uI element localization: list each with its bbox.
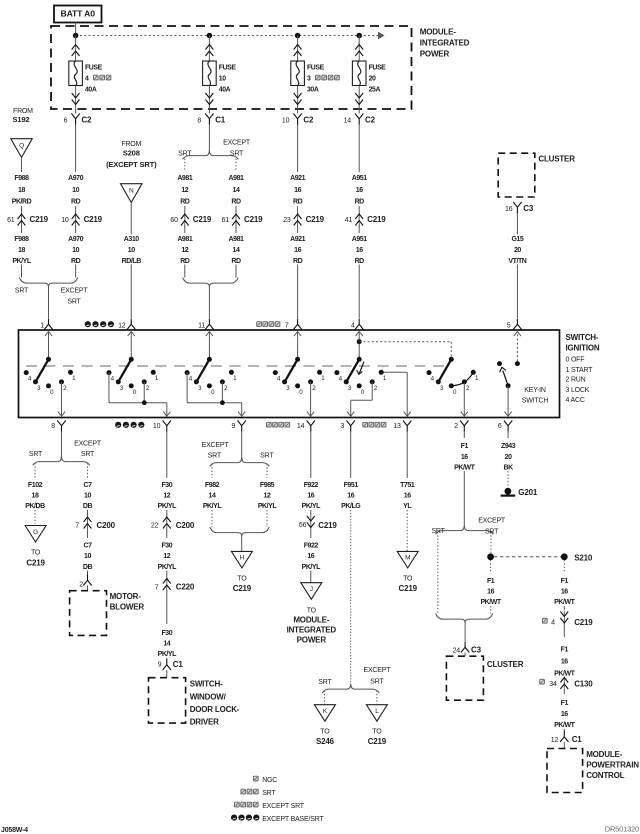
ignition switch wafer at x=451.3: feed wire and wiper	[438, 342, 454, 382]
connector pin 2 at motor blower	[79, 575, 91, 591]
fuse 4 (40A)	[69, 36, 111, 114]
svg-text:16: 16	[487, 589, 494, 596]
svg-text:BATT A0: BATT A0	[61, 9, 96, 19]
svg-text:EXCEPT: EXCEPT	[223, 139, 251, 146]
svg-text:PK/YL: PK/YL	[158, 503, 178, 510]
svg-text:FUSE: FUSE	[307, 65, 325, 72]
svg-text:A970: A970	[68, 175, 83, 182]
connector C2 pin 14	[344, 114, 376, 125]
off-page connector N (from S208)	[121, 184, 143, 318]
svg-text:C130: C130	[574, 680, 593, 689]
svg-text:4: 4	[85, 76, 89, 83]
svg-text:F951: F951	[344, 482, 359, 489]
svg-text:S246: S246	[316, 737, 335, 746]
svg-text:16: 16	[356, 247, 363, 254]
switch bottom pin 8 connector	[51, 421, 65, 432]
svg-text:2: 2	[454, 423, 458, 430]
wire A921 16 RD (lower)	[288, 234, 308, 318]
svg-text:25A: 25A	[369, 87, 381, 94]
bridge arc contacts 0-2-1 on wafer 6	[451, 372, 473, 386]
legend: EXCEPT SRT	[235, 802, 305, 810]
svg-text:10: 10	[72, 247, 79, 254]
svg-text:C1: C1	[173, 660, 184, 669]
wire F988 18 PK/YL	[10, 234, 34, 277]
svg-text:A921: A921	[290, 236, 305, 243]
svg-text:24: 24	[453, 648, 461, 655]
wire F1 16 PK/WT from pin 2	[452, 432, 476, 526]
svg-text:RD/LB: RD/LB	[122, 258, 142, 265]
svg-text:9: 9	[158, 662, 162, 669]
svg-text:20: 20	[514, 247, 521, 254]
svg-text:14: 14	[163, 640, 170, 647]
svg-text:C200: C200	[97, 521, 116, 530]
splice S210	[487, 532, 593, 562]
connector C3 pin 24 at cluster	[453, 642, 482, 657]
svg-text:YL: YL	[403, 503, 412, 510]
svg-text:C219: C219	[193, 215, 212, 224]
svg-text:F1: F1	[561, 578, 569, 585]
svg-text:FROM: FROM	[121, 141, 141, 148]
svg-text:PK/YL: PK/YL	[258, 503, 278, 510]
svg-text:3: 3	[307, 76, 311, 83]
off-page connector Q (from S192)	[11, 139, 32, 172]
wire wafer2 contacts 4+2 to pin 10	[109, 373, 170, 417]
wire A981 12 RD (srt, upper)	[175, 173, 195, 205]
svg-text:NGC: NGC	[262, 777, 277, 784]
svg-text:C219: C219	[233, 584, 252, 593]
svg-text:12: 12	[264, 493, 271, 500]
svg-text:PK/YL: PK/YL	[12, 258, 32, 265]
node FROM S192 label	[13, 108, 34, 124]
svg-text:SRT: SRT	[431, 528, 445, 535]
merge brace pin 9 branches	[210, 527, 269, 551]
svg-text:23: 23	[283, 217, 291, 224]
svg-text:61: 61	[222, 217, 230, 224]
legend: NGC	[253, 776, 277, 784]
svg-text:SRT: SRT	[370, 678, 384, 685]
legend: SRT	[241, 789, 276, 797]
svg-text:PK/LG: PK/LG	[341, 503, 361, 510]
svg-text:0 OFF: 0 OFF	[566, 357, 585, 364]
svg-text:C2: C2	[365, 116, 376, 125]
svg-text:18: 18	[18, 187, 25, 194]
svg-text:DRIVER: DRIVER	[190, 718, 219, 727]
svg-text:14: 14	[209, 493, 216, 500]
svg-text:G201: G201	[518, 488, 538, 497]
svg-text:POWER: POWER	[420, 50, 450, 59]
svg-text:RD: RD	[180, 258, 190, 265]
wire F982 14 PK/YL	[200, 480, 224, 527]
svg-text:6: 6	[64, 117, 68, 124]
svg-text:18: 18	[32, 493, 39, 500]
svg-text:16: 16	[561, 711, 568, 718]
ignition switch wafer at x=48.5: feed wire and wiper	[36, 330, 53, 382]
legend: EXCEPT BASE/SRT	[231, 815, 324, 824]
svg-text:16: 16	[561, 589, 568, 596]
merge brace to pin 11	[183, 278, 239, 319]
svg-text:N: N	[129, 187, 134, 194]
svg-text:C219: C219	[306, 215, 325, 224]
svg-text:16: 16	[404, 493, 411, 500]
svg-text:A981: A981	[229, 236, 244, 243]
ignition switch wafer at x=297.6: feed wire and wiper	[285, 330, 302, 382]
svg-text:20: 20	[505, 454, 512, 461]
svg-text:TO: TO	[403, 576, 413, 583]
svg-text:H: H	[240, 555, 245, 562]
switch-ignition enclosure	[19, 330, 560, 418]
svg-text:16: 16	[307, 553, 314, 560]
off-page connector K to S246	[314, 705, 335, 746]
svg-text:IGNITION: IGNITION	[566, 344, 600, 353]
svg-text:PK/YL: PK/YL	[203, 503, 223, 510]
wire F30 12 PK/YL (upper)	[155, 432, 179, 511]
svg-text:30A: 30A	[307, 87, 319, 94]
svg-text:PK/YL: PK/YL	[302, 503, 322, 510]
off-page connector J to module-integrated power	[287, 583, 337, 645]
svg-text:RD: RD	[71, 258, 81, 265]
fuse 3 (30A)	[291, 36, 340, 114]
svg-text:SRT: SRT	[178, 150, 192, 157]
svg-text:TO: TO	[372, 728, 382, 735]
off-page connector L to C219	[366, 705, 387, 746]
svg-text:7: 7	[75, 523, 79, 530]
wire wafer4 contact 2 to pin 14	[307, 382, 314, 417]
wire BATT A0 to bus	[75, 23, 77, 36]
svg-text:EXCEPT BASE/SRT: EXCEPT BASE/SRT	[262, 816, 324, 823]
fuse 10 (40A)	[203, 36, 237, 114]
svg-text:C219: C219	[368, 737, 387, 746]
svg-text:F30: F30	[161, 482, 172, 489]
switch bottom pin 2 connector	[454, 421, 468, 432]
wire A310 10 RD/LB	[119, 234, 143, 265]
split brace pin 3: SRT / EXCEPT SRT	[318, 667, 391, 704]
svg-text:Q: Q	[19, 142, 24, 149]
svg-text:40A: 40A	[219, 87, 231, 94]
svg-text:RD: RD	[293, 198, 303, 205]
switch pin 12 connector (except base/srt)	[85, 319, 136, 330]
svg-text:PK/YL: PK/YL	[158, 564, 178, 571]
svg-text:10: 10	[84, 493, 91, 500]
connector C200 pin 22	[151, 510, 195, 538]
connector C219 pin 4 (ngc)	[543, 611, 594, 638]
svg-text:C219: C219	[574, 618, 593, 627]
wafer contacts 4,3,0,2,1 at x=451.3	[427, 370, 479, 396]
split brace SRT / EXCEPT SRT below C1	[178, 139, 251, 172]
svg-text:EXCEPT SRT: EXCEPT SRT	[262, 803, 305, 810]
wire F922 16 PK/YL (lower)	[299, 541, 323, 583]
sheet number DR501320	[605, 825, 639, 834]
wire C7 10 DB (except srt, upper)	[82, 480, 93, 510]
wire Z943 20 BK from pin 6	[498, 432, 518, 487]
label MODULE-INTEGRATED POWER (top right)	[420, 27, 470, 58]
svg-text:C3: C3	[471, 646, 482, 655]
svg-text:SWITCH-: SWITCH-	[190, 680, 223, 689]
svg-text:RD: RD	[71, 198, 81, 205]
svg-text:16: 16	[307, 493, 314, 500]
svg-text:EXCEPT: EXCEPT	[61, 287, 89, 294]
connector C200 pin 7	[75, 510, 115, 538]
svg-text:A921: A921	[290, 175, 305, 182]
wire wafer6 contact 2 to pin 2	[461, 383, 468, 417]
wafer contacts 4,3,0,2,1 at x=359.2	[334, 370, 386, 396]
switch bottom pin 14 connector	[267, 421, 316, 432]
svg-text:SRT: SRT	[318, 679, 332, 686]
svg-text:CONTROL: CONTROL	[586, 771, 624, 780]
connector C219 pin 41	[345, 206, 386, 233]
wire F951 16 PK/LG	[339, 432, 363, 684]
power feed label BATT A0	[54, 6, 102, 23]
cluster dashed box (top right)	[498, 153, 575, 197]
ignition switch wafer at x=131.25: feed wire and wiper	[118, 330, 135, 382]
svg-text:SWITCH-: SWITCH-	[566, 333, 599, 342]
svg-text:(EXCEPT SRT): (EXCEPT SRT)	[106, 160, 157, 169]
connector C1 pin 12 at PCM	[551, 731, 582, 748]
svg-text:MODULE-: MODULE-	[420, 27, 456, 36]
svg-text:1: 1	[40, 322, 44, 329]
connector C219 pin 61 (right)	[222, 206, 263, 233]
svg-text:F102: F102	[28, 482, 43, 489]
svg-text:KEY-IN: KEY-IN	[524, 387, 546, 394]
connector C2 pin 6	[64, 114, 92, 125]
svg-text:PK/WT: PK/WT	[554, 722, 575, 729]
svg-text:FUSE: FUSE	[85, 65, 103, 72]
wire A981 14 RD (except srt, upper)	[226, 173, 246, 205]
wire wafer3 contacts 4+2 to pin 9	[187, 373, 245, 417]
svg-text:F922: F922	[304, 482, 319, 489]
switch bottom pin 9 connector	[231, 421, 245, 432]
connector C1 pin 8	[197, 114, 225, 125]
svg-text:7: 7	[155, 584, 159, 591]
svg-text:4: 4	[551, 620, 555, 627]
svg-text:FUSE: FUSE	[219, 65, 237, 72]
svg-text:C2: C2	[81, 116, 92, 125]
connector C220 pin 7	[155, 578, 195, 625]
svg-text:SRT: SRT	[81, 451, 95, 458]
svg-text:SRT: SRT	[67, 298, 81, 305]
svg-text:10: 10	[84, 553, 91, 560]
svg-text:RD: RD	[180, 198, 190, 205]
svg-text:12: 12	[163, 493, 170, 500]
wire C7 10 DB (lower)	[82, 541, 93, 575]
svg-text:2: 2	[79, 581, 83, 588]
svg-text:J: J	[310, 586, 313, 593]
off-page connector G to C219	[25, 526, 46, 568]
split brace pin 2: SRT / EXCEPT SRT	[431, 518, 505, 536]
svg-text:INTEGRATED: INTEGRATED	[420, 39, 470, 48]
svg-text:WINDOW/: WINDOW/	[190, 692, 227, 701]
svg-text:TO: TO	[320, 728, 330, 735]
svg-text:S210: S210	[574, 553, 593, 562]
wire F985 12 PK/YL	[255, 480, 279, 527]
svg-text:10: 10	[128, 247, 135, 254]
connector C3 pin 16	[505, 202, 534, 213]
wire G15 20 VT/TN	[505, 213, 529, 318]
module-powertrain control dashed box	[547, 749, 639, 793]
svg-text:C219: C219	[26, 558, 45, 567]
svg-text:34: 34	[549, 681, 557, 688]
svg-text:G15: G15	[511, 236, 523, 243]
svg-text:MOTOR-: MOTOR-	[110, 592, 142, 601]
wire F1 16 PK/WT (lower)	[552, 698, 576, 731]
svg-text:F1: F1	[561, 700, 569, 707]
wire A951 16 RD (upper)	[349, 125, 369, 206]
merge brace to cluster C3	[436, 614, 493, 642]
svg-text:13: 13	[393, 423, 401, 430]
svg-text:A951: A951	[352, 236, 367, 243]
svg-text:C200: C200	[176, 521, 195, 530]
svg-text:A951: A951	[352, 175, 367, 182]
svg-text:5: 5	[507, 322, 511, 329]
svg-text:12: 12	[118, 322, 126, 329]
svg-text:J058W-4: J058W-4	[1, 827, 28, 834]
svg-text:F30: F30	[161, 630, 172, 637]
svg-text:DB: DB	[83, 564, 93, 571]
switch pin 5 connector	[507, 319, 522, 330]
junction node bus/fuse 4	[73, 33, 79, 39]
split brace pin 9: EXCEPT SRT / SRT	[202, 442, 275, 478]
svg-text:POWER: POWER	[297, 635, 327, 644]
wire A970 10 RD (lower)	[66, 234, 86, 277]
svg-text:2 RUN: 2 RUN	[566, 377, 586, 384]
svg-text:A310: A310	[124, 236, 139, 243]
svg-text:1 START: 1 START	[566, 367, 594, 374]
svg-text:16: 16	[561, 659, 568, 666]
wire wafer1 contact 2 to pin 8	[58, 382, 65, 417]
ignition switch wafer at x=209.4: feed wire and wiper	[196, 330, 213, 382]
svg-text:4 ACC: 4 ACC	[566, 397, 585, 404]
svg-text:F1: F1	[461, 443, 469, 450]
switch-window/door lock-driver dashed box	[149, 678, 240, 727]
wire pin 9 down to split	[241, 432, 243, 458]
wire A981 14 RD (except srt, lower)	[226, 234, 246, 277]
svg-text:G: G	[33, 529, 38, 536]
wire F922 16 PK/YL (upper)	[299, 432, 323, 511]
svg-text:PK/WT: PK/WT	[554, 599, 575, 606]
module-integrated power dashed enclosure	[51, 26, 412, 109]
svg-text:SRT: SRT	[15, 287, 29, 294]
wire A951 16 RD (lower)	[349, 234, 369, 318]
connector C219 pin 66	[299, 510, 337, 538]
wire F1 16 PK/WT (below splice left)	[479, 560, 503, 614]
svg-text:TO: TO	[31, 550, 41, 557]
wire F30 12 PK/YL (middle)	[155, 541, 179, 578]
svg-text:C219: C219	[318, 521, 337, 530]
svg-text:C219: C219	[30, 215, 49, 224]
svg-text:EXCEPT: EXCEPT	[202, 442, 230, 449]
svg-text:PK/YL: PK/YL	[302, 564, 322, 571]
svg-text:PK/YL: PK/YL	[158, 651, 178, 658]
svg-text:C2: C2	[303, 116, 314, 125]
mechanical linkage dashed line	[26, 365, 446, 367]
wire wafer5 contact 2 to pin 3	[347, 382, 372, 417]
momentary start return arrow on wafer 5	[357, 362, 364, 375]
split brace pin 8: SRT / EXCEPT SRT	[29, 440, 102, 478]
svg-text:PK/WT: PK/WT	[554, 670, 575, 677]
wire pin 8 down to split	[61, 432, 63, 457]
svg-text:EXCEPT: EXCEPT	[478, 518, 506, 525]
connector C130 pin 34 (ngc)	[540, 677, 594, 695]
svg-text:SRT: SRT	[260, 452, 274, 459]
svg-text:8: 8	[51, 423, 55, 430]
svg-text:MODULE-: MODULE-	[293, 615, 329, 624]
svg-text:12: 12	[181, 247, 188, 254]
svg-text:F1: F1	[561, 647, 569, 654]
svg-text:12: 12	[181, 187, 188, 194]
sheet number J058W-4	[1, 827, 28, 834]
svg-text:10: 10	[61, 217, 69, 224]
wire A921 16 RD (upper)	[288, 125, 308, 206]
wire A970 10 RD (upper)	[66, 125, 86, 206]
svg-text:F30: F30	[161, 543, 172, 550]
svg-text:Z943: Z943	[501, 443, 516, 450]
merge brace SRT / EXCEPT SRT to pin 1	[15, 278, 88, 319]
svg-text:PK/WT: PK/WT	[454, 464, 475, 471]
motor-blower dashed box	[70, 591, 145, 636]
svg-text:VT/TN: VT/TN	[508, 258, 526, 265]
wire from connector C1 pin 8	[208, 125, 210, 151]
switch bottom pin 13 connector	[363, 421, 412, 432]
svg-text:22: 22	[151, 523, 159, 530]
svg-text:7: 7	[285, 322, 289, 329]
svg-text:SWITCH: SWITCH	[522, 397, 549, 404]
wafer contacts 4,3,0,2,1 at x=297.6	[273, 370, 325, 396]
svg-text:C1: C1	[215, 116, 226, 125]
wire T751 16 YL	[397, 432, 417, 552]
wire F1 16 PK/WT (mid)	[552, 645, 576, 680]
switch pin 1 connector	[40, 319, 52, 330]
svg-text:TO: TO	[237, 576, 247, 583]
cluster dashed box (bottom)	[446, 656, 523, 700]
svg-text:41: 41	[345, 217, 353, 224]
svg-text:RD: RD	[355, 258, 365, 265]
svg-text:F982: F982	[205, 482, 220, 489]
svg-text:C219: C219	[399, 584, 418, 593]
svg-text:BLOWER: BLOWER	[110, 603, 145, 612]
connector C2 pin 10	[282, 114, 314, 125]
svg-text:POWERTRAIN: POWERTRAIN	[586, 761, 639, 770]
svg-text:DR501320: DR501320	[605, 825, 639, 834]
svg-text:MODULE-: MODULE-	[586, 750, 622, 759]
svg-text:A981: A981	[177, 175, 192, 182]
svg-text:C7: C7	[83, 543, 92, 550]
svg-text:A981: A981	[229, 175, 244, 182]
connector C219 pin 61	[7, 206, 48, 233]
svg-text:40A: 40A	[85, 87, 97, 94]
svg-text:8: 8	[197, 117, 201, 124]
connector C219 pin 60	[170, 206, 211, 233]
svg-text:S192: S192	[13, 115, 30, 124]
svg-text:F1: F1	[487, 578, 495, 585]
svg-text:RD: RD	[355, 198, 365, 205]
wafer contacts 4,3,0,2,1 at x=48.5	[24, 370, 76, 396]
svg-text:T751: T751	[400, 482, 415, 489]
fuse 20 (25A)	[352, 36, 386, 114]
connector C219 pin 23	[283, 206, 324, 233]
svg-text:RD: RD	[231, 198, 241, 205]
svg-text:16: 16	[461, 454, 468, 461]
svg-text:20: 20	[369, 76, 376, 83]
svg-text:61: 61	[7, 217, 15, 224]
svg-text:CLUSTER: CLUSTER	[487, 660, 524, 669]
svg-text:10: 10	[153, 423, 161, 430]
switch pin 4 connector	[351, 319, 363, 330]
svg-text:L: L	[375, 708, 379, 715]
ignition switch wafer at x=359.2: feed wire and wiper	[346, 330, 363, 382]
svg-text:F988: F988	[14, 175, 29, 182]
node FROM S208 (EXCEPT SRT) label	[106, 141, 157, 169]
svg-text:16: 16	[347, 493, 354, 500]
svg-text:14: 14	[233, 187, 240, 194]
